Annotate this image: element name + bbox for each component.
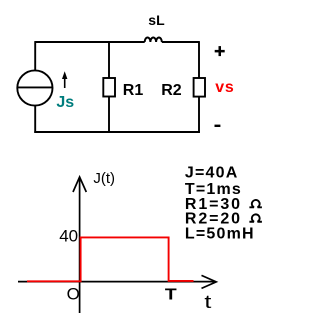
svg-text:Js: Js	[56, 94, 74, 111]
svg-text:R2: R2	[161, 82, 182, 99]
svg-text:sL: sL	[148, 12, 165, 28]
minus terminal sign	[215, 125, 221, 127]
current direction arrow shaft	[64, 78, 66, 89]
svg-text:J=40A: J=40A	[185, 165, 239, 182]
svg-text:R1: R1	[123, 82, 144, 99]
svg-text:L=50mH: L=50mH	[185, 225, 255, 242]
resistor R2 body	[194, 78, 205, 97]
plus terminal sign	[215, 50, 225, 53]
wire: right branch lower segment	[198, 97, 200, 133]
current direction arrow head	[62, 71, 67, 79]
wire: middle branch lower segment	[108, 97, 110, 133]
inductor sL coil	[145, 37, 162, 42]
graph y-axis arrowhead	[73, 177, 86, 192]
wire: top-right horizontal segment	[162, 41, 199, 43]
resistor R1 body	[103, 78, 115, 97]
svg-text:J(t): J(t)	[93, 170, 115, 187]
wire: left branch lower segment	[34, 106, 36, 133]
svg-text:O: O	[67, 285, 80, 304]
graph y-axis line	[79, 178, 81, 314]
wire: left branch upper segment	[34, 41, 36, 70]
red source waveform J(t) step	[27, 237, 194, 281]
graph x-axis arrowhead	[202, 275, 217, 288]
svg-text:40: 40	[59, 227, 78, 246]
unit ohm for R2	[249, 214, 262, 221]
wire: right branch upper segment	[198, 41, 200, 78]
current source Js circle	[17, 70, 52, 105]
unit ohm for R1	[249, 200, 262, 207]
svg-text:T: T	[165, 287, 177, 304]
svg-text:t: t	[204, 292, 211, 312]
svg-text:vs: vs	[215, 79, 234, 96]
current source horizontal bar	[17, 86, 52, 88]
wire: bottom horizontal segment	[34, 131, 200, 133]
wire: middle branch upper segment	[108, 41, 110, 78]
wire: top-left horizontal segment	[35, 41, 145, 43]
graph x-axis line	[18, 281, 216, 283]
